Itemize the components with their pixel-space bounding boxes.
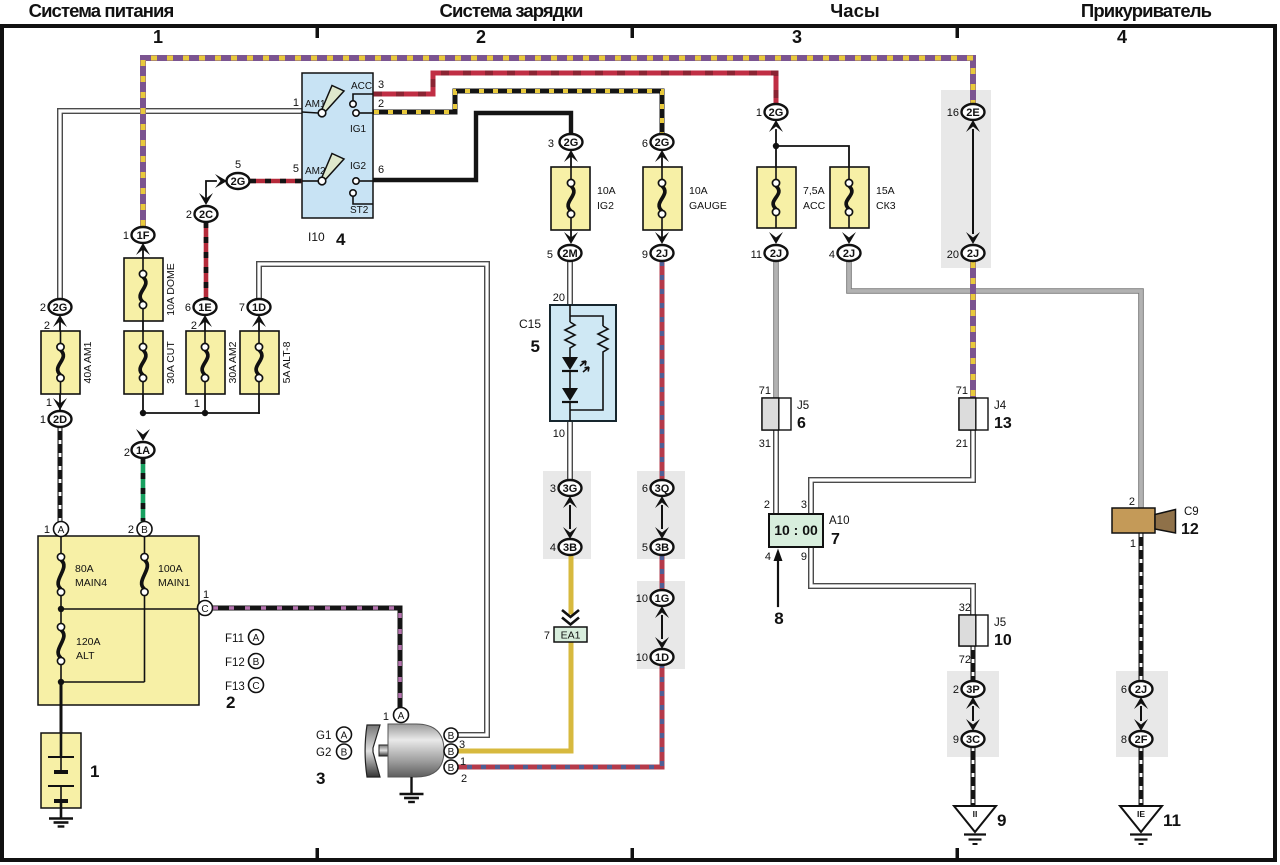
battery (item 1) xyxy=(41,682,99,818)
svg-text:6: 6 xyxy=(185,302,191,314)
svg-text:4: 4 xyxy=(1117,27,1127,47)
wire: link to 2C and 2G ovals xyxy=(199,174,227,205)
svg-text:J4: J4 xyxy=(994,400,1007,412)
connector 10 1G xyxy=(636,590,674,606)
wire yellow: 3B via EA1 to alternator B pin 1 xyxy=(459,555,571,751)
svg-text:A: A xyxy=(253,633,260,644)
svg-text:5A ALT-8: 5A ALT-8 xyxy=(281,341,293,383)
wire black-white: J5 pin72 to 2 3P xyxy=(971,646,976,681)
pin C of fusible link block xyxy=(198,589,213,616)
connector 6 2J (lighter) xyxy=(1121,681,1153,697)
connector 16 2E xyxy=(947,104,985,120)
connector 6 3Q xyxy=(642,480,674,496)
svg-text:6: 6 xyxy=(797,415,806,432)
svg-text:ALT: ALT xyxy=(76,650,95,662)
svg-text:72: 72 xyxy=(959,654,971,666)
svg-text:1: 1 xyxy=(44,524,50,536)
svg-text:10A DOME: 10A DOME xyxy=(165,263,177,316)
arrows 1G-1D xyxy=(655,606,669,649)
wire black-white: 9 3C to ground II xyxy=(971,747,976,806)
svg-text:2J: 2J xyxy=(967,248,979,260)
alternator (item 3) xyxy=(365,724,444,794)
section number 2 xyxy=(476,27,486,47)
svg-text:5: 5 xyxy=(547,249,553,261)
svg-text:16: 16 xyxy=(947,107,959,119)
connector 9 3C xyxy=(953,731,985,747)
clock A10 (item 7) xyxy=(764,499,850,563)
svg-text:ACC: ACC xyxy=(803,200,826,212)
alternator pin B2 xyxy=(444,760,467,785)
connector block shading 2E/2J xyxy=(941,90,991,268)
section number 1 xyxy=(153,27,163,47)
svg-text:3: 3 xyxy=(801,499,807,511)
svg-text:9: 9 xyxy=(997,811,1006,830)
svg-text:1: 1 xyxy=(1130,538,1136,550)
svg-text:A: A xyxy=(341,730,348,741)
fuse 10A IG2 xyxy=(551,167,616,230)
connector 11 2J xyxy=(751,245,788,261)
svg-text:2: 2 xyxy=(1129,496,1135,508)
section number 4 xyxy=(1117,27,1127,47)
svg-text:6: 6 xyxy=(642,483,648,495)
svg-text:СК3: СК3 xyxy=(876,200,896,212)
svg-text:7: 7 xyxy=(239,302,245,314)
svg-text:F11: F11 xyxy=(225,633,244,645)
svg-text:ACC: ACC xyxy=(351,81,372,92)
arrow into 2G xyxy=(44,315,67,332)
svg-text:1: 1 xyxy=(203,589,209,601)
connector 3 3G xyxy=(550,480,582,496)
wire black-yellow: ignition IG1 pin2 to 6 2G (GAUGE) xyxy=(374,91,662,135)
svg-text:7: 7 xyxy=(831,531,840,548)
connector block shading 3P/3C xyxy=(947,671,999,757)
svg-text:4: 4 xyxy=(550,542,556,554)
connector 4 3B xyxy=(550,539,582,555)
svg-text:2: 2 xyxy=(128,524,134,536)
svg-text:1D: 1D xyxy=(655,652,669,664)
svg-text:30A CUT: 30A CUT xyxy=(165,341,177,384)
chevrons into EA1 xyxy=(562,610,579,625)
alternator pin B3 xyxy=(444,728,465,751)
svg-text:IE: IE xyxy=(1137,809,1145,819)
svg-text:3: 3 xyxy=(378,79,384,91)
svg-text:5: 5 xyxy=(531,337,540,356)
svg-text:6: 6 xyxy=(378,164,384,176)
svg-text:4: 4 xyxy=(829,249,835,261)
svg-text:2: 2 xyxy=(124,447,130,459)
svg-text:1: 1 xyxy=(46,397,52,409)
wire black-white: C9 pin1 to 6 2J xyxy=(1139,533,1144,681)
svg-text:B: B xyxy=(448,731,455,742)
svg-text:10: 10 xyxy=(994,632,1012,649)
legend F11 A xyxy=(225,630,264,646)
svg-text:1F: 1F xyxy=(137,230,150,242)
svg-text:1: 1 xyxy=(756,107,762,119)
wire red-blue: 9 2J to 3Q xyxy=(660,261,665,477)
svg-text:4: 4 xyxy=(336,230,346,249)
svg-text:30A AM2: 30A AM2 xyxy=(227,341,239,383)
svg-text:C9: C9 xyxy=(1184,506,1199,518)
svg-text:2G: 2G xyxy=(769,107,784,119)
svg-text:13: 13 xyxy=(994,415,1012,432)
svg-text:71: 71 xyxy=(956,385,968,397)
svg-text:G2: G2 xyxy=(316,747,331,759)
svg-text:7,5A: 7,5A xyxy=(803,185,825,197)
svg-text:A10: A10 xyxy=(829,515,849,527)
wire: 1 2G to ACC and CK3 fuses xyxy=(773,130,849,183)
svg-text:2: 2 xyxy=(378,98,384,110)
svg-text:9: 9 xyxy=(801,551,807,563)
svg-text:MAIN1: MAIN1 xyxy=(158,577,190,589)
svg-text:20: 20 xyxy=(553,292,565,304)
connector block shading 2J/2F xyxy=(1116,671,1168,757)
wire white: clock C15 pin10 to 3G xyxy=(567,420,573,480)
connector block shading 3G/3B xyxy=(543,471,591,559)
svg-text:9: 9 xyxy=(953,734,959,746)
ground IE (item 11) xyxy=(1120,806,1181,844)
connector 6 1E xyxy=(185,299,217,315)
arrows 3G-3B xyxy=(563,496,577,539)
connector 2 1A xyxy=(132,442,155,458)
svg-text:2: 2 xyxy=(40,302,46,314)
node: fuse bus junction xyxy=(140,398,259,416)
connector 20 2J xyxy=(947,245,985,261)
connector block shading 3Q/3B xyxy=(637,471,685,559)
wire red-blue: 5 3B to 10 1G xyxy=(660,555,665,590)
svg-text:40A AM1: 40A AM1 xyxy=(82,341,94,383)
connector 5 3B xyxy=(642,539,674,555)
svg-text:15A: 15A xyxy=(876,185,895,197)
svg-text:3: 3 xyxy=(550,483,556,495)
svg-text:Часы: Часы xyxy=(830,0,879,21)
svg-text:B: B xyxy=(448,747,455,758)
svg-text:3: 3 xyxy=(316,769,325,788)
ground below battery xyxy=(49,819,73,827)
svg-text:B: B xyxy=(253,657,260,668)
item number 2 xyxy=(226,693,235,712)
ground below alternator xyxy=(400,794,424,802)
svg-text:J5: J5 xyxy=(994,617,1006,629)
legend F13 C xyxy=(225,678,264,694)
wire: through fuse IG2 xyxy=(570,157,572,237)
svg-text:2F: 2F xyxy=(1135,734,1148,746)
legend F12 B xyxy=(225,654,264,670)
connector 8 2F xyxy=(1121,731,1153,747)
svg-text:2M: 2M xyxy=(562,248,577,260)
fuse 7,5A ACC xyxy=(757,167,826,228)
svg-text:2D: 2D xyxy=(53,414,67,426)
wire: through DOME and CUT fuses xyxy=(142,250,144,413)
svg-text:2G: 2G xyxy=(53,302,68,314)
svg-text:Система питания: Система питания xyxy=(29,0,174,21)
svg-text:2: 2 xyxy=(186,209,192,221)
arrow into 3 2G xyxy=(564,150,578,162)
svg-text:2J: 2J xyxy=(1135,684,1147,696)
svg-text:IG2: IG2 xyxy=(350,161,367,172)
arrows 2E-2J xyxy=(966,120,980,244)
svg-text:5: 5 xyxy=(235,159,241,171)
alternator pin A xyxy=(383,708,409,724)
svg-text:II: II xyxy=(973,809,978,819)
wire white: J4 pin21 to clock pin3 xyxy=(811,430,973,514)
svg-text:ST2: ST2 xyxy=(350,205,369,216)
svg-text:2: 2 xyxy=(226,693,235,712)
svg-text:80A: 80A xyxy=(75,563,94,575)
svg-text:3: 3 xyxy=(792,27,802,47)
svg-text:3B: 3B xyxy=(655,542,669,554)
svg-text:B: B xyxy=(141,525,148,536)
connector block shading 1G/1D xyxy=(637,581,685,669)
connector 2 2G xyxy=(40,299,72,315)
arrow into 2D xyxy=(46,397,67,410)
arrows 3Q-3B xyxy=(655,496,669,539)
svg-text:I10: I10 xyxy=(308,230,325,244)
svg-text:3C: 3C xyxy=(966,734,980,746)
alternator pin B1 xyxy=(444,744,466,768)
svg-text:EA1: EA1 xyxy=(561,630,581,642)
connector 2 3P xyxy=(953,681,985,697)
svg-text:A: A xyxy=(58,525,65,536)
svg-text:MAIN4: MAIN4 xyxy=(75,577,107,589)
connector 5 2M xyxy=(547,245,582,261)
svg-text:20: 20 xyxy=(947,249,959,261)
svg-text:10: 10 xyxy=(553,428,565,440)
legend G2 B xyxy=(316,744,352,759)
wire black-white: 2D to fusible link block A xyxy=(58,427,63,521)
svg-text:2: 2 xyxy=(461,773,467,785)
wire green-black: 1A to fusible link block B xyxy=(141,458,146,521)
connector 1 1F xyxy=(123,227,155,243)
svg-text:1E: 1E xyxy=(198,302,211,314)
fuse 10A GAUGE xyxy=(643,167,727,230)
arrow into 1A xyxy=(124,429,150,459)
svg-text:1: 1 xyxy=(293,97,299,109)
svg-text:10A: 10A xyxy=(597,185,616,197)
ground II (item 9) xyxy=(954,806,1006,844)
svg-text:F13: F13 xyxy=(225,681,245,693)
svg-text:3B: 3B xyxy=(563,542,577,554)
svg-text:120A: 120A xyxy=(76,636,101,648)
fuse 40A AM1 xyxy=(41,331,94,394)
svg-text:5: 5 xyxy=(642,542,648,554)
wire: through fuse AM1 xyxy=(59,322,61,410)
svg-text:4: 4 xyxy=(765,551,771,563)
section number 3 xyxy=(792,27,802,47)
connector 3 2G xyxy=(548,134,583,150)
svg-text:3: 3 xyxy=(459,739,465,751)
arrow into 1E xyxy=(191,315,212,332)
svg-text:3G: 3G xyxy=(563,483,578,495)
wire: through fuse ALT-8 xyxy=(258,322,260,413)
wire white: fuse ALT-8 via 1D to alternator B pin 3 xyxy=(259,264,487,735)
connector 10 1D xyxy=(636,649,674,665)
svg-text:2C: 2C xyxy=(199,209,213,221)
svg-text:21: 21 xyxy=(956,438,968,450)
svg-text:2J: 2J xyxy=(770,248,782,260)
section title: Часы xyxy=(830,0,879,21)
wire black-violet: fusible link C to alternator A pin1 xyxy=(213,608,400,707)
pin A of fusible link block xyxy=(44,522,69,537)
fuse 15A CK3 xyxy=(830,167,896,228)
connector 9 2J xyxy=(642,245,674,261)
svg-text:10: 10 xyxy=(636,652,648,664)
svg-text:J5: J5 xyxy=(797,400,809,412)
svg-text:2E: 2E xyxy=(966,107,979,119)
connector 2 2C xyxy=(186,206,218,222)
svg-text:G1: G1 xyxy=(316,730,331,742)
svg-text:1: 1 xyxy=(123,230,129,242)
wire white: 2M to clock C15 pin20 xyxy=(567,261,573,306)
connector 1 2D xyxy=(40,411,72,427)
arrow 8 into clock pin 4 xyxy=(774,549,784,629)
wire: through fuse AM2 xyxy=(204,322,206,413)
svg-text:IG2: IG2 xyxy=(597,200,614,212)
svg-text:Прикуриватель: Прикуриватель xyxy=(1081,0,1212,21)
arrow into 9 2J xyxy=(655,232,669,244)
wire red: ignition ACC pin3 to 1 2G xyxy=(374,73,776,104)
section title: Система зарядки xyxy=(440,0,583,21)
arrows 3P-3C xyxy=(966,697,980,731)
svg-text:100A: 100A xyxy=(158,563,183,575)
svg-text:6: 6 xyxy=(642,138,648,150)
svg-text:2G: 2G xyxy=(231,176,246,188)
ground point EA1 xyxy=(544,627,587,642)
arrow into 4 2J xyxy=(842,232,856,244)
item number 3 xyxy=(316,769,325,788)
section title: Прикуриватель xyxy=(1081,0,1212,21)
cigarette lighter C9 (item 12) xyxy=(1112,496,1199,550)
connector 6 2G xyxy=(642,134,674,150)
wire white: clock pin9 to junction J5 pin32 xyxy=(811,546,973,616)
ignition switch I10 (item 4) xyxy=(293,73,384,249)
svg-text:3P: 3P xyxy=(966,684,979,696)
wire grey: 11 2J to junction J5 pin71 xyxy=(773,262,779,399)
arrow into 1D xyxy=(252,315,266,327)
svg-text:B: B xyxy=(448,763,455,774)
svg-text:2: 2 xyxy=(953,684,959,696)
svg-text:11: 11 xyxy=(751,249,762,261)
fuse 30A AM2 xyxy=(186,331,239,394)
svg-text:IG1: IG1 xyxy=(350,124,367,135)
wire violet-yellow bus: to DOME fuse 1F and to 2E xyxy=(143,58,973,226)
combination meter charge indicator C15 (item 5) xyxy=(519,292,616,440)
wire white: ignition AM1 pin1 to 2G left column xyxy=(60,111,303,299)
svg-text:1: 1 xyxy=(194,398,200,410)
svg-text:C: C xyxy=(201,604,208,615)
svg-text:3Q: 3Q xyxy=(655,483,670,495)
svg-text:2: 2 xyxy=(764,499,770,511)
svg-text:2: 2 xyxy=(476,27,486,47)
connector 4 2J xyxy=(829,245,861,261)
svg-text:10: 10 xyxy=(636,593,648,605)
svg-text:32: 32 xyxy=(959,602,971,614)
wire red-black: 5 2G to ignition AM2 pin5 xyxy=(250,179,302,184)
svg-text:B: B xyxy=(341,747,348,758)
svg-text:2J: 2J xyxy=(656,248,668,260)
fusible link block (item 2) xyxy=(38,536,199,705)
connector 5 2G xyxy=(227,159,250,189)
svg-text:1: 1 xyxy=(153,27,163,47)
svg-text:31: 31 xyxy=(759,438,771,450)
junction connector J4 (item 13) xyxy=(956,385,1012,450)
svg-text:C15: C15 xyxy=(519,317,541,331)
fuse 30A CUT xyxy=(124,331,177,394)
connector 1 2G xyxy=(756,104,788,120)
svg-text:2J: 2J xyxy=(843,248,855,260)
svg-text:5: 5 xyxy=(293,163,299,175)
wire grey: 4 2J to cigarette lighter C9 pin2 xyxy=(849,262,1141,509)
svg-text:1: 1 xyxy=(383,711,389,723)
wire red-black: 2C to 1E xyxy=(204,222,209,299)
arrows 2J-2F xyxy=(1134,697,1148,731)
wire red-blue: 10 1D to alternator B pin 2 xyxy=(459,663,662,767)
arrow into 1F xyxy=(136,243,150,255)
svg-text:10A: 10A xyxy=(689,185,708,197)
wire black-white: 8 2F to ground IE xyxy=(1139,747,1144,806)
svg-text:8: 8 xyxy=(774,609,783,628)
svg-text:1: 1 xyxy=(40,414,46,426)
junction connector J5 (item 6) xyxy=(759,385,809,450)
svg-text:2G: 2G xyxy=(655,137,670,149)
legend G1 A xyxy=(316,727,352,742)
arrow into 2M xyxy=(564,232,578,244)
svg-text:2G: 2G xyxy=(564,137,579,149)
svg-text:10 : 00: 10 : 00 xyxy=(774,522,818,538)
arrow into 11 2J xyxy=(769,232,783,244)
svg-text:7: 7 xyxy=(544,630,550,642)
svg-text:3: 3 xyxy=(548,138,554,150)
svg-text:1G: 1G xyxy=(655,593,670,605)
fuse 10A DOME xyxy=(124,258,177,321)
wire: through fuse GAUGE xyxy=(661,157,663,237)
section title: Система питания xyxy=(29,0,174,21)
svg-text:11: 11 xyxy=(1163,811,1181,830)
svg-text:GAUGE: GAUGE xyxy=(689,200,727,212)
svg-text:12: 12 xyxy=(1181,521,1199,538)
svg-text:1D: 1D xyxy=(252,302,266,314)
svg-text:A: A xyxy=(398,711,405,722)
svg-text:9: 9 xyxy=(642,249,648,261)
svg-text:F12: F12 xyxy=(225,657,245,669)
wire white: J5 pin31 to clock pin2 xyxy=(773,430,779,514)
svg-text:1A: 1A xyxy=(136,445,150,457)
svg-text:6: 6 xyxy=(1121,684,1127,696)
svg-text:1: 1 xyxy=(90,762,99,781)
arrow into 6 2G xyxy=(655,150,669,162)
junction connector J5 (item 10) xyxy=(959,602,1012,666)
svg-text:71: 71 xyxy=(759,385,771,397)
wire violet-yellow: 20 2J to junction J4 pin71 xyxy=(970,262,976,399)
svg-text:1: 1 xyxy=(460,756,466,768)
arrow into 1 2G xyxy=(769,120,783,132)
fuse 5A ALT-8 xyxy=(240,331,293,394)
svg-text:8: 8 xyxy=(1121,734,1127,746)
svg-text:Система зарядки: Система зарядки xyxy=(440,0,583,21)
wire black: ignition IG2 pin6 to 3 2G (IG2 fuse) xyxy=(374,113,571,180)
pin B of fusible link block xyxy=(128,522,152,537)
svg-text:C: C xyxy=(252,681,259,692)
connector 7 1D xyxy=(239,299,271,315)
